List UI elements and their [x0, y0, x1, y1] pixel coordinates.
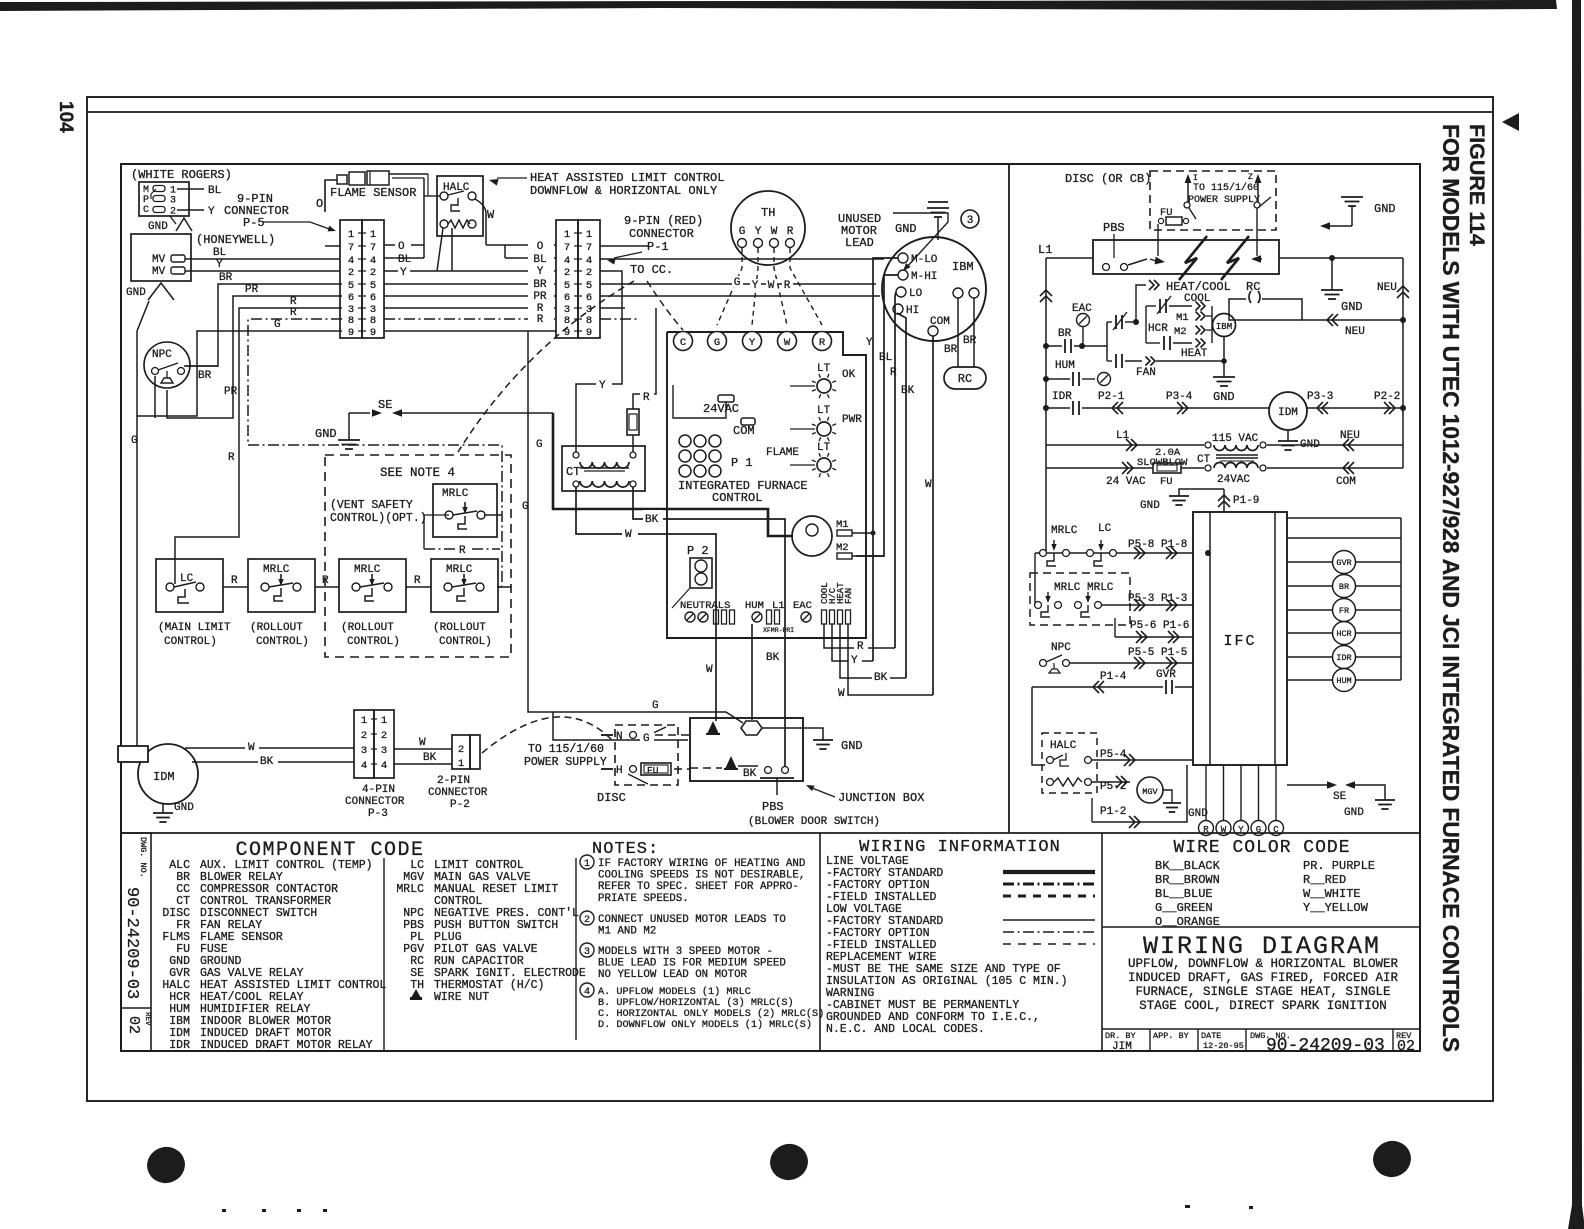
- svg-text:TO 115/1/60: TO 115/1/60: [528, 743, 604, 756]
- svg-text:GND: GND: [174, 802, 194, 814]
- svg-text:HUM: HUM: [745, 600, 764, 612]
- svg-text:IF FACTORY WIRING OF HEATING A: IF FACTORY WIRING OF HEATING AND: [598, 858, 805, 870]
- svg-text:1: 1: [458, 758, 464, 770]
- gnd arrow right: [1320, 222, 1330, 230]
- svg-text:24 VAC: 24 VAC: [1106, 476, 1146, 488]
- wires DISC to junction box: [655, 734, 690, 736]
- svg-text:5: 5: [564, 280, 570, 292]
- svg-text:FU: FU: [1160, 476, 1173, 488]
- svg-text:W: W: [625, 529, 632, 541]
- disc switch left: [1184, 202, 1190, 208]
- svg-text:G: G: [131, 435, 138, 447]
- svg-text:6: 6: [564, 292, 570, 304]
- svg-text:W: W: [1221, 825, 1227, 835]
- svg-text:7: 7: [348, 242, 354, 254]
- svg-text:4: 4: [586, 255, 592, 267]
- svg-text:COM: COM: [1336, 476, 1356, 488]
- bolt arrow right: [1251, 255, 1261, 263]
- wire O row7 left: [384, 244, 424, 246]
- svg-text:BR: BR: [1058, 328, 1072, 340]
- HEAT/COOL tap: [1136, 285, 1146, 322]
- ground mid right: [1321, 289, 1343, 291]
- svg-text:GVR: GVR: [1336, 558, 1351, 568]
- svg-text:IDM: IDM: [153, 770, 175, 784]
- wire WR-BL: [177, 188, 204, 190]
- HEAT row: [1146, 342, 1160, 344]
- svg-text:Y: Y: [400, 267, 407, 279]
- svg-text:GND: GND: [1213, 390, 1235, 404]
- svg-text:IDR: IDR: [1336, 653, 1351, 663]
- wire row8 mid dashdot: [384, 318, 556, 320]
- binder hole right: [1369, 1137, 1415, 1182]
- svg-text:P5-5 P1-5: P5-5 P1-5: [1128, 647, 1187, 659]
- svg-text:BK: BK: [645, 514, 659, 526]
- disc arrows: [1187, 178, 1189, 202]
- IFC main box right: [1193, 512, 1287, 765]
- svg-text:R: R: [819, 337, 826, 349]
- svg-text:G: G: [522, 501, 529, 513]
- svg-text:W: W: [784, 337, 791, 349]
- svg-text:P 2: P 2: [687, 544, 709, 558]
- svg-text:JUNCTION BOX: JUNCTION BOX: [838, 791, 924, 805]
- svg-text:(ROLLOUT: (ROLLOUT: [341, 622, 394, 634]
- IFC terminals C G Y W R: [674, 332, 693, 351]
- wires P1 to IBM: [600, 258, 884, 260]
- svg-text:SEE NOTE 4: SEE NOTE 4: [380, 466, 455, 480]
- svg-text:COM: COM: [733, 424, 755, 438]
- wire M2: [852, 555, 884, 557]
- svg-text:P 1: P 1: [731, 456, 753, 470]
- ground IDM: [162, 803, 164, 813]
- IBM gnd drop: [1223, 337, 1225, 377]
- svg-text:2: 2: [584, 915, 590, 926]
- svg-text:BL: BL: [213, 247, 226, 259]
- IFC right outputs: [1287, 561, 1332, 563]
- svg-text:1: 1: [370, 229, 376, 241]
- svg-text:115 VAC: 115 VAC: [1212, 433, 1259, 445]
- svg-text:Y: Y: [749, 337, 756, 349]
- scan specks bottom: [222, 1209, 226, 1212]
- rail L1 up arrows: [1040, 290, 1052, 296]
- wire CT BK: [633, 487, 785, 766]
- wire R row3: [175, 308, 342, 584]
- svg-text:(VENT SAFETY: (VENT SAFETY: [330, 499, 413, 512]
- svg-text:TH: TH: [761, 206, 775, 220]
- page border: [87, 97, 1493, 1101]
- svg-text:NOTES:: NOTES:: [592, 840, 659, 859]
- labels P1 left: [528, 238, 554, 248]
- TH dashed leads: [717, 248, 742, 325]
- svg-text:GND: GND: [126, 287, 146, 299]
- svg-text:CONNECT UNUSED MOTOR LEADS TO: CONNECT UNUSED MOTOR LEADS TO: [598, 914, 786, 926]
- svg-text:LC: LC: [1098, 523, 1112, 535]
- svg-text:Y: Y: [752, 280, 759, 292]
- component code column divider: [383, 858, 385, 1050]
- HALC resistor: [1047, 779, 1054, 786]
- svg-text:C: C: [1273, 825, 1279, 835]
- svg-text:POWER SUPPLY: POWER SUPPLY: [1188, 195, 1260, 206]
- svg-text:P5-3 P1-3: P5-3 P1-3: [1128, 593, 1187, 605]
- wire left drop to dashed mrlc: [1034, 553, 1036, 605]
- wire BK from heat: [840, 624, 906, 678]
- svg-text:2: 2: [348, 267, 354, 279]
- DISC dashed box bottom: [615, 725, 678, 785]
- svg-text:R: R: [231, 575, 238, 587]
- svg-text:TH: TH: [410, 979, 424, 992]
- dashed arcs TO CC: [647, 281, 683, 330]
- svg-text:O: O: [316, 197, 323, 211]
- HCR ladder: [1145, 306, 1147, 343]
- svg-text:6: 6: [586, 292, 592, 304]
- wire R below MRLC1 dashdot: [424, 548, 455, 550]
- wire W from fan: [848, 624, 933, 695]
- svg-text:IDM: IDM: [1278, 407, 1298, 419]
- svg-text:(HONEYWELL): (HONEYWELL): [196, 233, 275, 247]
- wire P1 O right: [600, 245, 648, 247]
- DISC blade lower: [628, 774, 648, 784]
- svg-text:MRLC: MRLC: [442, 488, 469, 500]
- svg-text:DOWNFLOW & HORIZONTAL ONLY: DOWNFLOW & HORIZONTAL ONLY: [530, 184, 717, 198]
- svg-text:Y: Y: [755, 226, 762, 238]
- svg-text:G: G: [643, 733, 650, 745]
- svg-text:W: W: [487, 208, 495, 222]
- svg-text:2: 2: [564, 267, 570, 279]
- svg-text:3: 3: [967, 215, 974, 227]
- svg-text:02: 02: [125, 1016, 142, 1034]
- title block info strip: [1102, 1028, 1420, 1030]
- wiring diagram title block: [1102, 926, 1420, 928]
- svg-text:WIRE NUT: WIRE NUT: [434, 991, 489, 1004]
- main diagram frame: [121, 164, 1420, 1051]
- svg-text:BK__BLACK: BK__BLACK: [1155, 859, 1221, 873]
- svg-text:CT: CT: [1197, 454, 1211, 466]
- svg-text:BR__BROWN: BR__BROWN: [1155, 873, 1220, 887]
- svg-text:(MAIN LIMIT: (MAIN LIMIT: [158, 622, 231, 634]
- svg-text:BK: BK: [874, 672, 888, 684]
- ground top right: [1341, 196, 1363, 198]
- svg-text:PBS: PBS: [1103, 221, 1125, 235]
- svg-text:FR: FR: [1339, 606, 1349, 616]
- svg-text:1: 1: [348, 229, 354, 241]
- disconnect dashed box: [1150, 171, 1276, 230]
- wire L1 feed: [1046, 257, 1093, 259]
- svg-text:HCR: HCR: [1148, 323, 1168, 335]
- svg-text:EAC: EAC: [793, 600, 812, 612]
- H row dashes inside box: [690, 767, 722, 769]
- svg-text:P2-1: P2-1: [1098, 391, 1125, 403]
- thermostat TH circle: [731, 191, 805, 265]
- connector P-5: [340, 220, 362, 338]
- svg-text:APP. BY: APP. BY: [1153, 1031, 1189, 1041]
- svg-text:W: W: [925, 479, 932, 491]
- svg-text:(ROLLOUT: (ROLLOUT: [250, 622, 303, 634]
- svg-text:IBM: IBM: [952, 260, 974, 274]
- svg-text:8: 8: [370, 315, 376, 327]
- svg-text:HALC: HALC: [1050, 740, 1077, 752]
- svg-text:GND: GND: [315, 427, 337, 441]
- svg-text:LT: LT: [817, 442, 831, 454]
- svg-text:1: 1: [584, 859, 590, 870]
- svg-text:2: 2: [586, 267, 592, 279]
- svg-text:24VAC: 24VAC: [1217, 474, 1250, 486]
- MRLC1 right stub: [484, 514, 502, 516]
- dashed box MRLC MRLC: [1030, 573, 1130, 625]
- svg-text:RC: RC: [958, 372, 972, 386]
- svg-text:HUM: HUM: [1055, 360, 1075, 372]
- svg-text:4: 4: [348, 255, 354, 267]
- svg-text:M1 AND M2: M1 AND M2: [598, 926, 656, 938]
- svg-text:12-20-95: 12-20-95: [1203, 1041, 1244, 1051]
- svg-text:(BLOWER DOOR SWITCH): (BLOWER DOOR SWITCH): [748, 816, 880, 828]
- svg-text:W: W: [838, 688, 845, 700]
- svg-text:R: R: [890, 367, 897, 379]
- svg-text:BR: BR: [1339, 582, 1349, 592]
- svg-text:M-LO: M-LO: [911, 254, 938, 266]
- svg-text:P-3: P-3: [368, 808, 388, 820]
- svg-text:HI: HI: [906, 305, 919, 317]
- svg-text:7: 7: [370, 242, 376, 254]
- svg-text:M1: M1: [1176, 312, 1189, 324]
- svg-text:R: R: [537, 314, 544, 326]
- svg-text:GND: GND: [1374, 202, 1396, 216]
- svg-text:(WHITE ROGERS): (WHITE ROGERS): [131, 168, 232, 182]
- svg-text:NEU: NEU: [1377, 282, 1397, 294]
- svg-text:R: R: [459, 545, 466, 557]
- connector P-1: [556, 220, 578, 338]
- svg-text:HEAT/COOL: HEAT/COOL: [1166, 280, 1231, 294]
- svg-text:Y__YELLOW: Y__YELLOW: [1303, 901, 1369, 915]
- wire Y from hc: [832, 624, 873, 661]
- notes list: [580, 855, 594, 869]
- table top border: [121, 832, 1420, 834]
- svg-text:PWR: PWR: [842, 414, 862, 426]
- svg-text:C: C: [680, 337, 686, 349]
- IDM gnd right: [1287, 430, 1289, 441]
- svg-text:4: 4: [361, 760, 367, 772]
- connector P-3 4-pin: [354, 710, 374, 778]
- svg-text:1: 1: [564, 229, 570, 241]
- svg-text:IFC: IFC: [1223, 633, 1256, 650]
- gnd 24vac: [1179, 489, 1224, 496]
- blower output M: [792, 516, 832, 556]
- IFC output feed: [1287, 517, 1401, 519]
- svg-text:R: R: [643, 392, 650, 404]
- wire IBM R down: [895, 292, 896, 648]
- svg-text:P1-9: P1-9: [1233, 495, 1259, 507]
- svg-text:DATE: DATE: [1201, 1031, 1221, 1041]
- svg-text:2: 2: [381, 730, 387, 742]
- svg-text:GND: GND: [1341, 300, 1363, 314]
- svg-text:D. DOWNFLOW ONLY MODELS (1) MR: D. DOWNFLOW ONLY MODELS (1) MRLC(S): [598, 1019, 812, 1031]
- svg-text:TO 115/1/60: TO 115/1/60: [1193, 182, 1259, 194]
- disc switch right: [1254, 202, 1260, 208]
- svg-text:90-24209-03: 90-24209-03: [1266, 1036, 1385, 1056]
- svg-text:8: 8: [348, 315, 354, 327]
- PBS blower door switch: [765, 767, 772, 774]
- svg-text:2: 2: [458, 744, 464, 756]
- wire BR row5: [186, 284, 342, 366]
- svg-text:BLUE LEAD IS FOR MEDIUM SPEED: BLUE LEAD IS FOR MEDIUM SPEED: [598, 958, 786, 970]
- svg-text:LEAD: LEAD: [845, 236, 874, 250]
- wire R row8 dashdot: [248, 319, 502, 586]
- svg-text:9: 9: [370, 327, 376, 339]
- wire to ground jbox: [762, 728, 823, 740]
- wire 24vac: [673, 385, 726, 418]
- svg-text:R: R: [322, 575, 329, 587]
- svg-text:IBM: IBM: [1216, 322, 1232, 332]
- svg-text:M2: M2: [1174, 326, 1187, 338]
- svg-text:9: 9: [586, 327, 592, 339]
- wire NPC BR: [184, 365, 218, 367]
- svg-text:R: R: [228, 452, 235, 464]
- arrow to HALC: [497, 177, 527, 179]
- svg-text:M1: M1: [836, 519, 849, 531]
- figure pointer arrow: [1502, 113, 1519, 131]
- LC box at 156: [156, 559, 223, 612]
- svg-text:W: W: [248, 742, 255, 754]
- svg-text:R: R: [787, 226, 794, 238]
- IFC terminal screws and pins: [685, 612, 695, 622]
- interrupted feed box: [1093, 240, 1279, 274]
- circled 3: [961, 210, 979, 228]
- svg-text:4: 4: [584, 987, 590, 998]
- svg-text:DR. BY: DR. BY: [1105, 1031, 1136, 1041]
- Honeywell gas valve box: [131, 234, 191, 281]
- svg-text:LO: LO: [909, 288, 923, 300]
- svg-text:5: 5: [370, 280, 376, 292]
- MRLC4 right stub: [497, 586, 502, 588]
- svg-text:BR: BR: [219, 272, 233, 284]
- svg-text:MRLC: MRLC: [446, 564, 473, 576]
- svg-text:LT: LT: [817, 363, 831, 375]
- svg-text:PR: PR: [224, 386, 238, 398]
- svg-text:G: G: [739, 226, 746, 238]
- svg-text:G: G: [536, 439, 543, 451]
- FR ladder vertical: [1106, 322, 1108, 361]
- svg-text:P2-2: P2-2: [1374, 391, 1400, 403]
- svg-text:7: 7: [564, 242, 570, 254]
- wire IBM Y down: [873, 258, 898, 661]
- svg-text:REFER TO SPEC. SHEET FOR APPRO: REFER TO SPEC. SHEET FOR APPRO-: [598, 881, 799, 893]
- svg-text:UPFLOW, DOWNFLOW & HORIZONTAL: UPFLOW, DOWNFLOW & HORIZONTAL BLOWER: [1128, 957, 1399, 971]
- page inner top rule: [87, 111, 1493, 113]
- svg-text:BK: BK: [901, 385, 915, 397]
- HALC dashed box right: [1042, 733, 1097, 793]
- hex feed vertical: [751, 624, 753, 720]
- wire G row9: [137, 331, 342, 760]
- svg-text:JIM: JIM: [1112, 1041, 1132, 1053]
- svg-text:2: 2: [361, 730, 367, 742]
- svg-text:CONTROL): CONTROL): [347, 636, 400, 648]
- IFC control outline: [667, 332, 866, 638]
- svg-text:FU: FU: [647, 765, 659, 776]
- svg-text:SE: SE: [1333, 791, 1347, 803]
- svg-text:NPC: NPC: [1051, 642, 1071, 654]
- NPC left contact stub: [154, 376, 156, 418]
- svg-text:DWG. NO.: DWG. NO.: [138, 837, 148, 878]
- svg-text:GND: GND: [1140, 500, 1160, 512]
- NPC pressure switch: [144, 342, 190, 388]
- svg-text:H: H: [616, 765, 623, 777]
- svg-text:BK: BK: [743, 768, 757, 780]
- svg-text:FURNACE, SINGLE STAGE HEAT, SI: FURNACE, SINGLE STAGE HEAT, SINGLE: [1135, 985, 1390, 999]
- svg-text:B. UPFLOW/HORIZONTAL (3) MRLC(: B. UPFLOW/HORIZONTAL (3) MRLC(S): [598, 997, 794, 1009]
- svg-text:R: R: [290, 307, 297, 319]
- svg-text:I: I: [1193, 174, 1198, 183]
- wire P3 to P2 W: [394, 748, 452, 750]
- svg-text:IDR: IDR: [1052, 391, 1072, 403]
- svg-text:CT: CT: [566, 465, 580, 479]
- MRLC box at 431: [431, 559, 498, 612]
- svg-text:2-PIN: 2-PIN: [437, 775, 470, 787]
- svg-text:CONNECTOR: CONNECTOR: [345, 796, 405, 808]
- MRLC box 1: [433, 484, 497, 537]
- svg-text:MGV: MGV: [1142, 787, 1158, 797]
- svg-text:P5-6 P1-6: P5-6 P1-6: [1130, 620, 1189, 632]
- svg-text:FIGURE 114: FIGURE 114: [1465, 124, 1489, 246]
- svg-text:SE: SE: [378, 398, 392, 412]
- induced draft motor IDM: [138, 744, 198, 804]
- svg-text:Y: Y: [599, 380, 606, 392]
- svg-text:MRLC: MRLC: [263, 564, 290, 576]
- svg-text:R: R: [857, 641, 864, 653]
- CT secondary: [1214, 463, 1258, 469]
- svg-text:Z: Z: [1248, 173, 1253, 182]
- svg-text:4: 4: [370, 255, 376, 267]
- svg-text:BL: BL: [208, 185, 221, 197]
- wire G lower: [560, 739, 688, 741]
- svg-text:1: 1: [586, 229, 592, 241]
- svg-text:4-PIN: 4-PIN: [362, 784, 395, 796]
- svg-text:BR: BR: [944, 344, 958, 356]
- svg-text:DISC (OR CB): DISC (OR CB): [1065, 172, 1151, 186]
- svg-text:W: W: [768, 280, 775, 292]
- svg-text:2: 2: [170, 207, 176, 218]
- svg-text:M-HI: M-HI: [911, 271, 937, 283]
- svg-text:7: 7: [586, 242, 592, 254]
- IBM motor right: [1213, 314, 1236, 337]
- HALC resistor row: [440, 220, 448, 228]
- svg-text:1: 1: [381, 715, 387, 727]
- lightning break symbol: [1179, 236, 1207, 280]
- wire G down from P5: [528, 331, 743, 723]
- wire P3 to P2 BK: [394, 763, 452, 765]
- svg-text:M2: M2: [836, 542, 849, 554]
- svg-text:9-PIN (RED): 9-PIN (RED): [624, 214, 703, 228]
- svg-text:FOR MODELS WITH UTEC 1012-927/: FOR MODELS WITH UTEC 1012-927/928 AND JC…: [1438, 124, 1464, 1052]
- svg-text:MV: MV: [152, 254, 166, 266]
- scan top edge bar: [0, 0, 1557, 11]
- svg-text:R__RED: R__RED: [1303, 873, 1346, 887]
- svg-text:G: G: [274, 319, 281, 331]
- svg-text:MRLC: MRLC: [1051, 525, 1078, 537]
- HALC box top: [437, 176, 483, 236]
- COOL row: [1146, 305, 1156, 307]
- svg-text:GND: GND: [1344, 807, 1364, 819]
- svg-text:C: C: [143, 205, 149, 216]
- wire flame sensor coax: [389, 173, 428, 175]
- thermostat subbase WR: [139, 182, 189, 216]
- wire O row7: [325, 245, 340, 247]
- svg-text:PRIATE SPEEDS.: PRIATE SPEEDS.: [598, 893, 689, 905]
- svg-text:NO YELLOW LEAD ON MOTOR: NO YELLOW LEAD ON MOTOR: [598, 969, 748, 981]
- svg-text:CONNECTOR: CONNECTOR: [428, 787, 488, 799]
- wire IBM BR to RC: [957, 298, 959, 367]
- wire honeywell Y: [185, 270, 340, 272]
- svg-text:W__WHITE: W__WHITE: [1303, 887, 1361, 901]
- svg-text:NEU: NEU: [1345, 326, 1365, 338]
- inline fuse: [627, 409, 639, 435]
